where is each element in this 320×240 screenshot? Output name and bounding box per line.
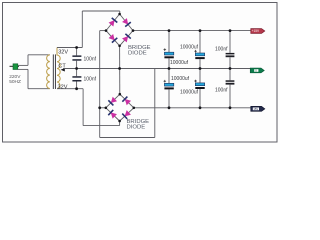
svg-text:DIODE: DIODE xyxy=(127,124,146,130)
capacitor C6 10000uf xyxy=(164,69,174,108)
transformer core xyxy=(53,54,55,89)
diode D3 top bridge left-bottom xyxy=(108,34,117,43)
svg-text:100nf: 100nf xyxy=(215,46,228,52)
junction dots xyxy=(75,13,231,123)
capacitor C7 10000uf xyxy=(194,69,204,108)
wire bottom bridge left stub xyxy=(100,107,106,109)
wire primary input xyxy=(18,55,50,89)
terminal -15V xyxy=(251,106,265,111)
transformer TR1 primary coil xyxy=(47,55,50,89)
diode D2 top bridge top-right xyxy=(122,18,131,27)
wire top bridge minus branch xyxy=(100,31,106,138)
wire CT rail 0V xyxy=(63,68,251,70)
wire bottom return box xyxy=(100,69,155,138)
transformer TR1 secondary coil xyxy=(57,48,60,89)
diode D1 top bridge left-top xyxy=(108,18,117,27)
svg-text:+15V: +15V xyxy=(252,29,260,33)
CT tap arrow xyxy=(61,68,65,71)
diode D5 bottom bridge top-left xyxy=(108,96,117,105)
connector J1 220V input xyxy=(10,64,20,70)
svg-text:100nf: 100nf xyxy=(84,77,97,83)
capacitor C3 10000uf xyxy=(164,31,174,69)
terminal 0V xyxy=(250,68,264,73)
svg-text:32V: 32V xyxy=(58,84,68,90)
diode D7 bottom bridge bottom-left xyxy=(108,110,117,119)
wire 32V top to bridge xyxy=(57,11,120,48)
svg-text:50HZ: 50HZ xyxy=(9,79,21,85)
svg-text:DIODE: DIODE xyxy=(128,50,147,56)
wire 32V bottom to lower bridge xyxy=(57,89,120,126)
terminal +15V xyxy=(251,29,265,34)
label BRIDGE DIODE top xyxy=(128,45,151,57)
capacitor C4 10000uf xyxy=(194,31,204,69)
capacitor C1 100nf xyxy=(72,48,81,69)
svg-text:100nf: 100nf xyxy=(84,57,97,63)
bottom bridge diamond wires xyxy=(106,94,134,121)
diode D4 top bridge bottom-right xyxy=(122,34,131,43)
wire AC mid link xyxy=(119,46,121,94)
capacitor C5 100nf xyxy=(226,31,235,69)
label 220V 50HZ xyxy=(9,74,21,85)
svg-text:10000uf: 10000uf xyxy=(170,60,189,66)
svg-text:10000uf: 10000uf xyxy=(180,44,199,50)
label BRIDGE DIODE bottom xyxy=(127,119,150,131)
top bridge diamond wires xyxy=(106,14,133,46)
diode D6 bottom bridge right-top xyxy=(122,96,131,105)
wire -V rail xyxy=(134,107,251,109)
diode D8 bottom bridge right-bottom xyxy=(122,110,131,119)
svg-text:10000uf: 10000uf xyxy=(180,89,199,95)
wire +V rail xyxy=(133,30,251,32)
svg-text:15V: 15V xyxy=(253,107,258,111)
svg-text:100nf: 100nf xyxy=(215,88,228,94)
svg-text:32V: 32V xyxy=(58,49,68,55)
svg-text:10000uf: 10000uf xyxy=(171,76,190,82)
capacitor C8 100nf xyxy=(226,69,235,108)
capacitor C2 100nf xyxy=(72,69,81,89)
